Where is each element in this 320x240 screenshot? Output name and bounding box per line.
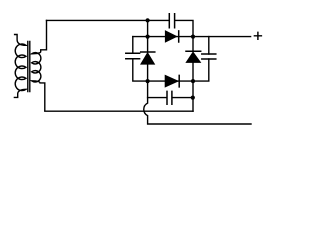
wire bottom cap rail left <box>148 97 167 99</box>
node: junction dot diode rail left <box>146 35 150 39</box>
diode D4 (right, pointing up) <box>186 50 201 52</box>
wire left cap bottom lead to bottom rail <box>133 59 148 81</box>
wire left cap branch: elbow down, to plates <box>132 37 134 54</box>
transformer T1 primary winding <box>14 35 26 98</box>
wire bottom cap rail right <box>173 97 193 99</box>
capacitor C3 (right) <box>202 54 216 59</box>
wire return rail A (transformer bottom to right column) <box>45 110 193 112</box>
node: junction dot bottom diode rail left <box>146 79 150 83</box>
wire left column (below left diode, through hop, to bottom output rail) <box>144 64 251 124</box>
diode D2 (left, pointing up) <box>141 51 155 53</box>
wire right cap leads <box>193 37 209 82</box>
wire right column (node B down to return rail elbow) <box>192 37 194 112</box>
plus terminal label <box>254 32 261 39</box>
wire bottom diode rail <box>148 80 193 82</box>
transformer T1 secondary winding <box>32 20 47 110</box>
wire top rail right + elbow down to node B <box>175 20 193 36</box>
transformer T1 core <box>28 41 30 91</box>
node: junction dot top rail <box>146 18 150 22</box>
wire positive rail (diode row to + terminal) <box>133 36 251 38</box>
node: junction dot bottom diode rail right <box>191 79 195 83</box>
node: junction dot bottom cap rail right <box>191 96 195 100</box>
diode D3 (bottom, pointing right) <box>165 75 178 87</box>
wire left column (top rail to left diode) <box>147 20 149 52</box>
capacitor C1 (top, in series) <box>169 14 174 28</box>
node B: junction dot diode rail right <box>191 35 195 39</box>
capacitor C2 (left) <box>126 53 140 59</box>
wire top rail left <box>47 19 169 21</box>
capacitor C4 (bottom, in series) <box>167 91 172 104</box>
diode D1 (top, pointing right) <box>165 31 176 42</box>
